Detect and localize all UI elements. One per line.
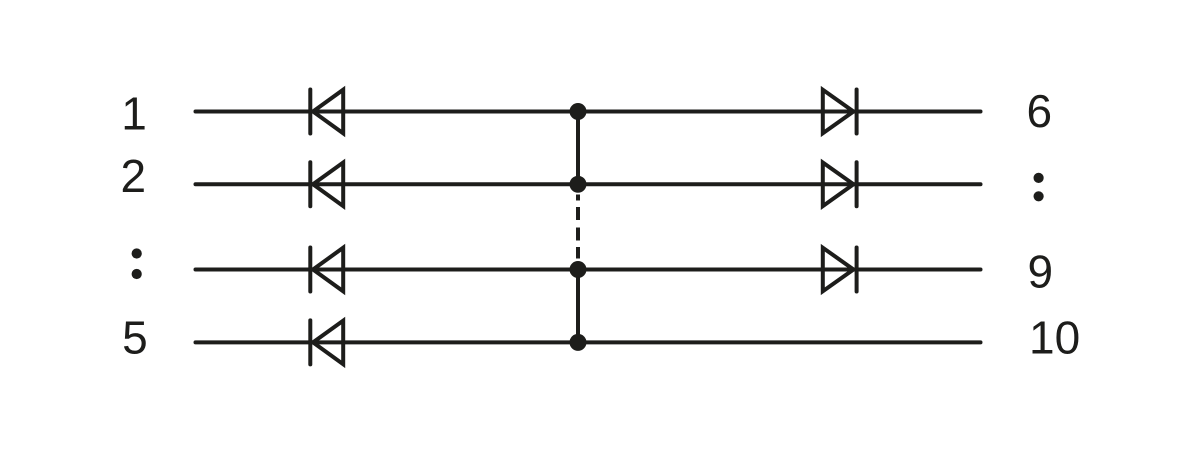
diode D1 row 1 left (cathode bar) (310, 90, 343, 134)
diode D3 row 3 left (310, 248, 343, 292)
svg-text:9: 9 (1028, 246, 1054, 298)
diode D6 row 2 right (823, 162, 857, 206)
ellipsis left (pins 3-4) (132, 248, 142, 279)
svg-text:6: 6 (1027, 85, 1053, 137)
diode D4 row 4 left (310, 320, 343, 364)
junction node row 2 (570, 176, 587, 193)
wire row 4 (pin 5 to pin 10) (196, 340, 981, 344)
diode D2 row 2 left (310, 162, 343, 206)
junction node row 3 (570, 261, 587, 278)
ellipsis right (pins 7-8) (1034, 173, 1044, 202)
wire bus dashed segment rows 2-3 (576, 195, 580, 259)
svg-text:1: 1 (121, 88, 147, 140)
junction node row 4 (570, 334, 587, 351)
wire bus segment rows 1-2 (576, 112, 580, 185)
svg-text:2: 2 (121, 150, 147, 202)
wire row 2 (pin 2 to pins 7/8 ellipsis) (196, 182, 981, 186)
wire bus segment rows 3-4 (576, 270, 580, 343)
svg-text:5: 5 (122, 312, 148, 364)
junction node row 1 (570, 103, 587, 120)
svg-text:10: 10 (1029, 312, 1080, 364)
wire row 1 (pin 1 to pin 6) (196, 110, 981, 114)
diode D5 row 1 right (cathode bar right) (823, 90, 857, 134)
diode D7 row 3 right (823, 248, 857, 292)
wire row 3 (ellipsis to pin 9) (196, 268, 981, 272)
